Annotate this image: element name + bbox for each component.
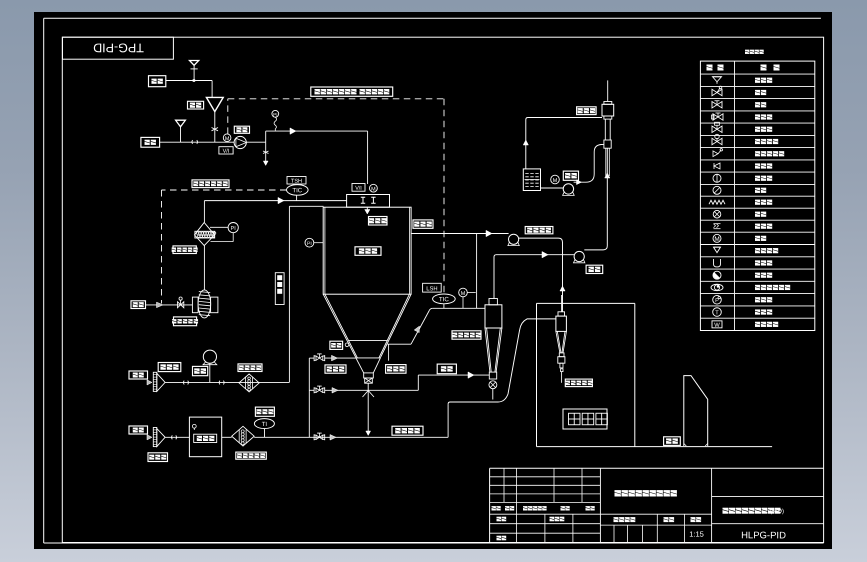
vent line [607,80,609,101]
legend name row8 [755,163,772,168]
legend sym gate valve [712,86,722,96]
title tab box TPG-PID [63,37,174,59]
legend sym solenoid valve [712,122,722,132]
svg-text:HLPG-PID: HLPG-PID [741,530,786,541]
drawing title cell [600,468,711,542]
label box LSH [423,283,442,292]
ground line [537,446,773,448]
wire junction to fan2 [563,254,575,256]
label box V/I [219,147,233,155]
bottom sub cells [614,525,642,543]
legend sym thermometer [713,308,722,317]
label box cyclone2 [565,379,592,387]
feed funnel F1 [190,61,199,81]
legend sym control valve [712,113,724,120]
wire CV1 to cone [325,355,356,361]
label box air inlet 2 [129,371,148,379]
scale row [600,514,711,542]
label box raw material [149,76,166,87]
blower B1 [147,372,165,391]
silencer [602,102,614,120]
svg-text:1:15: 1:15 [689,530,704,539]
svg-text:P: P [715,298,719,304]
cone level nozzle [345,343,349,347]
label box atomizer [369,217,388,226]
legend name row14 [755,236,766,241]
label box hot air temp control [192,180,229,188]
gauge PI3 tower wall [305,238,323,247]
label box filter3 [236,452,266,459]
wire fan1 discharge [519,238,565,312]
label box V/I tower [352,184,365,192]
svg-text:M: M [371,187,376,193]
gauge PI2 over filter [210,223,238,242]
legend name row10 [755,188,766,193]
scale value [689,530,704,539]
legend sym rotameter [713,174,721,182]
legend name row1 [755,78,772,83]
legend name row11 [755,200,772,205]
instrument TIC-1 [433,294,456,308]
label box tower right [413,220,433,228]
label box air inlet 1 [131,301,146,309]
rotary valve tower outlet [364,373,374,383]
motor M3 scrub pump [551,175,560,184]
scrubber feed line [523,118,602,169]
legend name row15 [755,248,778,253]
wire fan2 to silencer [584,148,610,250]
svg-text:M: M [225,136,230,142]
legend sym sight glass [711,284,723,290]
filter funnel F2 [206,97,223,111]
wire riser to cyclone2 duct [448,319,556,437]
wire blower1 riser to tower top [289,206,323,382]
fan FN2 [574,251,585,262]
clean room [537,303,635,446]
vibrator stub [388,344,390,360]
wire tower to cyclone [433,307,485,309]
pump P2 on air line [203,350,217,382]
dashed signal loop outlet-temp [228,99,444,293]
svg-text:TPG-PID: TPG-PID [93,41,144,55]
fan FN1 [508,234,519,245]
label box filter [188,101,204,109]
legend sym fan [713,210,721,218]
label box air heater [172,317,198,326]
legend name row20 [755,309,772,314]
tower cone [323,294,411,373]
atomizer nozzles [361,197,376,203]
svg-text:TI: TI [262,421,268,428]
right section dividers [712,497,824,524]
legend name row3 [755,102,766,107]
legend sym halfdisc [713,271,721,279]
svg-text:TSH: TSH [291,179,302,185]
legend sym angle valve [713,149,723,157]
legend sym filter [714,224,721,229]
inner drawing frame [62,37,823,542]
legend table grid [700,61,814,330]
drain stub with valve [263,142,269,165]
pipe union U3 [219,381,224,385]
wire filter to tower-top line [204,197,346,222]
label box blower2 [148,453,168,462]
process row text [497,536,507,541]
tower exhaust duct [388,308,433,344]
legend name row2 [755,90,766,95]
tower body [323,207,411,294]
legend sym weigher [712,321,722,329]
inline filter FL2 [239,374,259,392]
pressure gauge PI1 with pigtail [272,110,279,131]
wire CV2 conveying line [325,372,490,393]
legend name row18 [755,285,790,290]
scrub pump P3 [563,184,575,196]
legend name row6 [755,139,778,144]
drawing number HLPG-PID [741,530,786,541]
pipe union U1 [192,140,197,144]
control valve CV3 [314,433,325,440]
label box clean room [563,409,607,429]
label box feed pump [234,126,249,133]
wire pump to stack [574,144,604,184]
cyclone1 drop leg [492,389,494,400]
label box filter2 [238,364,262,372]
legend name row9 [755,176,772,181]
legend sym u-tube [714,259,721,267]
svg-text:TIC: TIC [292,187,303,194]
legend sym heater coil [709,200,725,204]
wire feed line [160,141,235,143]
instrument TIC-2 [287,185,309,201]
label box product collect [392,426,423,435]
label box air filter [172,246,198,254]
label box blower1 [158,363,181,372]
svg-text:M: M [461,291,466,297]
silencer drop pipe [605,119,610,140]
label box stack [664,437,681,446]
tower discharge pipe [363,383,375,435]
instrument TI-1 [254,419,274,438]
cyclone CY2 [556,295,567,383]
legend sym funnel [713,77,722,84]
globe valve V-air [178,297,184,308]
legend sym globe valve [712,101,722,108]
legend name row19 [755,297,772,302]
svg-text:(PID): (PID) [770,508,784,515]
cyclone CY1 [485,299,502,380]
svg-text:T: T [715,310,719,316]
label box feed liquid [141,137,160,147]
blower B2 [147,428,165,447]
wire feed riser to tower [266,128,368,184]
tower top exhaust line [411,230,509,308]
svg-text:TIC: TIC [439,296,450,303]
label box drying tower [355,247,381,256]
legend name row7 [755,151,784,156]
legend sym pressure gauge [713,295,722,304]
project name text [723,508,785,515]
legend sym check valve [714,163,720,169]
air filter FL1 [195,223,216,246]
label box fan1 [525,227,553,234]
svg-text:PI: PI [231,226,236,232]
label box gas inlet [129,426,148,434]
label box scrub pump [563,171,578,180]
manifold riser [308,358,310,437]
label box discharge valve [325,365,346,373]
control valve CV2 [309,386,324,393]
exhaust stack duct [684,376,708,446]
motor M atomizer [370,184,378,192]
svg-text:M: M [553,178,558,184]
rotary valve cyclone1 [489,381,497,389]
legend name row13 [755,224,772,229]
legend name row16 [755,260,772,265]
label box vibrator [386,365,406,374]
wire tank to pump [541,187,564,189]
wire blower2 to furnace [165,436,189,438]
legend name row17 [755,273,772,278]
svg-text:M: M [714,236,719,243]
legend sym pump [713,186,721,194]
pipe union U4 [172,435,177,439]
svg-text:PI: PI [307,241,312,247]
air disperser box [347,195,390,208]
legend sym diaphragm valve [712,134,722,144]
legend header name-col [761,65,780,71]
wire funnel F2 to feed line [212,112,219,143]
label box silencer [577,107,597,115]
legend sym motor [713,234,721,243]
legend name row21 [755,322,778,327]
atomizer spray arrow [365,207,370,214]
pipe union U2 [184,381,189,385]
wire hot air main [254,435,448,441]
pipe collar [604,140,611,148]
feed pump P1 [234,136,246,148]
cyclone1 exhaust [494,252,563,299]
label box fan2 [586,265,603,273]
label box hot wind [437,364,456,374]
label box pump2 [193,366,208,375]
wire blower1 line [165,381,289,383]
motor M feed pump [223,134,231,142]
hot air furnace [189,417,221,457]
wire pump discharge [246,131,265,142]
legend name row4 [755,114,772,119]
legend name row5 [755,127,772,132]
legend title [745,50,764,54]
revision header text [492,506,595,510]
svg-text:W: W [714,323,720,329]
air heater E1 [192,290,218,318]
svg-text:LSH: LSH [426,285,437,292]
control valve CV1 [309,354,324,361]
label box cyclone1 [452,331,481,339]
designer row text [497,517,565,522]
inline filter FL3 [232,426,255,446]
feed funnel F3 [176,120,186,142]
label box TSH [287,177,306,185]
motor M2 cyclone line [459,288,476,308]
svg-text:V/I: V/I [355,186,362,192]
scrubber tank [523,169,540,191]
label box outlet temp control system [311,87,393,96]
wire heater to filter [203,246,205,290]
svg-text:V/I: V/I [223,148,230,155]
label box TI [255,407,274,416]
legend sym nozzle [714,247,721,253]
wire raw material to filter funnel [166,79,212,97]
dashed signal loop hotair-temp [162,190,287,304]
vertical label box duct [275,273,284,305]
svg-text:PI: PI [273,112,277,117]
label box cone level [330,341,343,349]
legend header symbol-col [707,65,724,71]
wire furnace to filter3 [222,436,232,438]
title block grid [490,468,824,542]
wire air to heater [146,302,193,308]
legend name row12 [755,212,766,217]
